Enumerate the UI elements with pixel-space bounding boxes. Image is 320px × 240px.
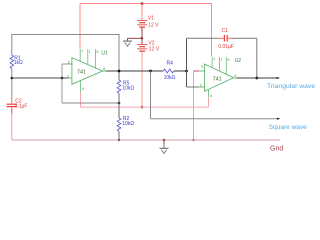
svg-text:1: 1 [221, 58, 223, 62]
wire V2 minus down to V- net [141, 52, 143, 108]
svg-text:1: 1 [89, 50, 91, 54]
resistor R2 [117, 118, 121, 131]
wire V- net U2 pin 4 riser [208, 97, 210, 107]
svg-text:3: 3 [68, 60, 70, 64]
wire C1 feedback drop to U2 output [256, 38, 258, 78]
wire integrator node vertical to C1 and U2 inverting input [186, 38, 188, 87]
svg-text:12 V: 12 V [149, 46, 160, 52]
svg-text:10kΩ: 10kΩ [164, 75, 176, 81]
wire U2 noninverting input stub horizontal [194, 70, 200, 72]
wire V- net U1 pin 4 riser [80, 93, 82, 108]
svg-text:5: 5 [228, 58, 230, 62]
wire V+ drop to U1 pin 7 [79, 4, 81, 49]
wire R1 bottom to C2 top [11, 69, 13, 98]
svg-text:5: 5 [97, 50, 99, 54]
svg-text:10kΩ: 10kΩ [122, 121, 134, 127]
wire C1 left connection [187, 37, 218, 39]
op-amp U2 [199, 57, 237, 98]
svg-text:1kΩ: 1kΩ [14, 60, 23, 66]
svg-text:2: 2 [200, 84, 202, 88]
wire square wave tap vertical [150, 71, 152, 119]
wire V1 minus to V2 plus link [141, 28, 143, 45]
node junction integrator summing node [185, 70, 188, 73]
wire V1 positive tap [141, 4, 143, 21]
svg-text:0.01µF: 0.01µF [218, 44, 234, 50]
wire U2 output run [236, 77, 277, 79]
wire square wave output run [151, 118, 278, 120]
node junction battery midpoint [141, 37, 143, 39]
wire U1 output node to R5 top [118, 71, 120, 80]
wire R5 bottom to R2 top [118, 93, 120, 118]
node junction V2 minus on V- net [141, 106, 144, 109]
wire R1 C2 node to U1 input vertical [12, 77, 68, 79]
wire V+ rail top [80, 3, 212, 5]
svg-text:Square wave: Square wave [269, 124, 307, 131]
svg-text:741: 741 [213, 77, 222, 83]
node junction R2 at ground rail [118, 139, 120, 141]
svg-text:6: 6 [103, 67, 105, 71]
svg-text:3: 3 [201, 65, 203, 69]
svg-text:7: 7 [213, 57, 215, 61]
battery V2 [137, 44, 147, 52]
svg-text:U2: U2 [235, 58, 242, 64]
svg-text:10kΩ: 10kΩ [122, 86, 134, 92]
svg-text:2: 2 [67, 75, 69, 79]
node junction C1 feedback on U2 output [255, 77, 258, 80]
ground symbol at bottom rail [160, 140, 169, 154]
wire R2 bottom to ground rail [118, 131, 120, 140]
node junction square wave tap [149, 70, 152, 73]
wire C1 right connection [233, 37, 257, 39]
node junction R5 R2 midpoint [118, 102, 121, 105]
wire ground branch to battery midpoint [128, 37, 143, 39]
battery V1 [137, 20, 147, 28]
wire U2 inverting input stub lead [187, 86, 200, 88]
svg-text:12 V: 12 V [148, 22, 159, 28]
ground symbol at battery midpoint [123, 38, 132, 46]
svg-text:0.1µF: 0.1µF [15, 104, 28, 110]
svg-text:Triangular wave: Triangular wave [267, 83, 315, 90]
wire C2 bottom to ground rail [11, 107, 13, 140]
node junction input bus / RC node [61, 77, 64, 80]
node square wave endpoint arrow [277, 118, 280, 120]
capacitor C2 [7, 97, 17, 114]
svg-text:7: 7 [81, 50, 83, 54]
svg-text:6: 6 [235, 74, 237, 78]
capacitor C1 [217, 35, 233, 42]
svg-text:741: 741 [77, 70, 86, 76]
svg-text:4: 4 [82, 87, 84, 91]
node junction U1 output / feedback [118, 70, 121, 73]
wire U1 output run to R4 [105, 70, 163, 72]
wire R4 right lead to integrator node [174, 70, 187, 72]
svg-text:R4: R4 [167, 61, 174, 67]
svg-text:U1: U1 [101, 51, 108, 57]
resistor R5 [117, 80, 121, 93]
svg-text:C1: C1 [222, 28, 229, 34]
op-amp U1 [67, 49, 106, 93]
wire V+ drop to U2 pin 7 [211, 4, 213, 57]
wire hysteresis divider tap run [62, 102, 119, 104]
node junction V+ rail / V1 [141, 2, 144, 5]
node triangular wave endpoint arrow [277, 77, 280, 79]
resistor R4 [163, 69, 173, 73]
wire U1 upper input stub lead [62, 63, 68, 65]
svg-text:V1: V1 [148, 15, 154, 21]
wire U2 noninverting input to ground rail riser [193, 71, 195, 140]
wire ground rail bottom [12, 139, 280, 141]
node junction R1 C2 [11, 77, 14, 80]
node junction riser on ground rail [192, 139, 194, 141]
wire V- net horizontal run [81, 106, 209, 108]
wire U1 input vertical bus [61, 64, 63, 103]
resistor R1 [10, 55, 14, 68]
node junction ground stub on rail [163, 139, 165, 141]
wire R1 top feedback to U1 output node [12, 35, 119, 71]
svg-text:4: 4 [210, 94, 212, 98]
svg-text:Gnd: Gnd [270, 145, 283, 152]
